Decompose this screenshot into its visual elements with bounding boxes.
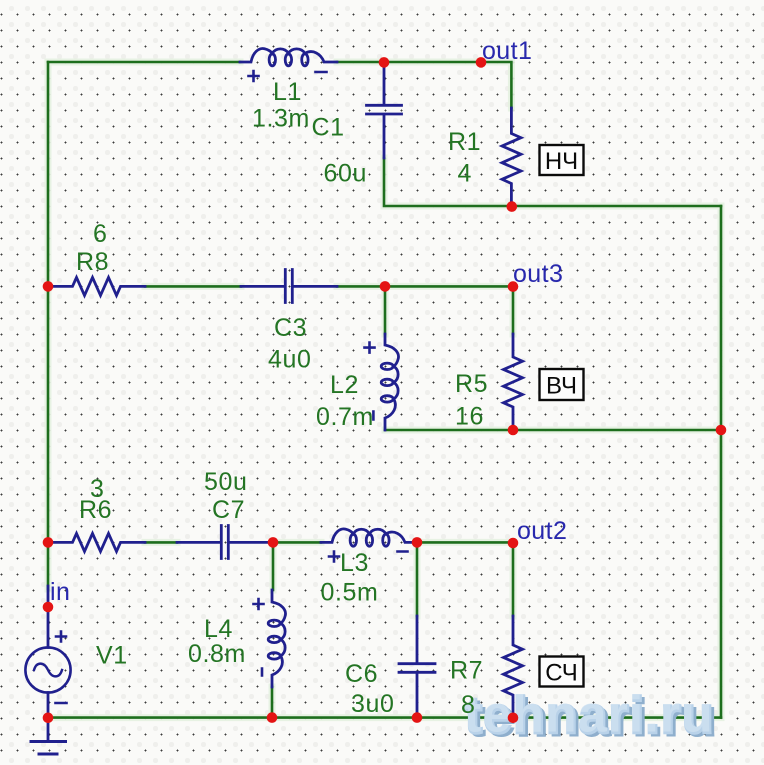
watermark tehnari.ru: [464, 686, 718, 748]
node out1: [476, 57, 487, 68]
svg-text:C1: C1: [312, 114, 345, 142]
svg-text:16: 16: [455, 403, 484, 431]
svg-text:R6: R6: [79, 496, 112, 524]
box NCh: [540, 145, 584, 175]
wire C3 to out3: [337, 285, 513, 288]
svg-text:out2: out2: [517, 517, 567, 545]
svg-text:0.8m: 0.8m: [188, 640, 246, 668]
svg-text:60u: 60u: [324, 160, 368, 188]
capacitor C3: [241, 270, 337, 303]
resistor R7: [504, 616, 523, 718]
wire right rail vertical: [720, 206, 723, 718]
svg-text:L3: L3: [340, 549, 369, 577]
node out3: [508, 281, 519, 292]
node out2: [508, 538, 519, 549]
capacitor C6: [399, 616, 435, 717]
svg-text:out3: out3: [513, 260, 563, 288]
ground: [31, 718, 66, 754]
svg-text:0.5m: 0.5m: [321, 579, 379, 607]
wire left rail vertical: [47, 62, 50, 589]
node C1 top junction: [379, 57, 390, 68]
box VCh: [540, 369, 584, 400]
wire L4 bottom green lead: [271, 687, 274, 718]
node L4 bottom junction: [267, 712, 278, 723]
wire junction down to L2: [384, 286, 387, 334]
svg-text:4: 4: [458, 160, 473, 188]
svg-text:6: 6: [93, 220, 108, 248]
wire L3 junction down to C6: [416, 542, 419, 616]
box SCh: [540, 657, 584, 687]
wire C1 bottom to R1 bottom rail y=206: [384, 158, 721, 206]
wire bottom rail y=717.6: [48, 716, 721, 719]
resistor R1: [502, 108, 521, 207]
svg-text:3u0: 3u0: [351, 690, 395, 718]
svg-text:C3: C3: [274, 314, 307, 342]
svg-text:out1: out1: [482, 37, 532, 65]
svg-text:C6: C6: [345, 660, 378, 688]
node C7 right junction: [268, 537, 279, 548]
wire out3 down to R5: [512, 286, 515, 334]
node C6 bottom junction: [412, 712, 423, 723]
wire C7 junction down to L4: [272, 542, 275, 590]
svg-text:0.7m: 0.7m: [316, 403, 374, 431]
wire top-left horizontal: [48, 61, 240, 64]
capacitor C1: [367, 62, 402, 158]
svg-text:СЧ: СЧ: [545, 660, 578, 687]
resistor R6: [49, 533, 145, 551]
node right rail mid junction: [716, 425, 727, 436]
svg-text:8: 8: [461, 691, 476, 719]
node left rail R6 junction: [43, 537, 54, 548]
node C3 right junction: [380, 281, 391, 292]
wire R6 to C7: [145, 541, 177, 544]
inductor L1: [240, 49, 337, 81]
wire glow underlay: [48, 62, 721, 718]
svg-text:50u: 50u: [204, 468, 248, 496]
svg-text:R7: R7: [450, 657, 483, 685]
svg-text:ВЧ: ВЧ: [546, 373, 577, 400]
node in: [43, 602, 54, 613]
inductor L3: [321, 529, 417, 562]
inductor L2: [365, 334, 399, 430]
node R1 bottom junction: [507, 201, 518, 212]
svg-text:R1: R1: [448, 128, 481, 156]
svg-text:4u0: 4u0: [268, 346, 312, 374]
wire R8 to C3: [145, 285, 241, 288]
svg-text:V1: V1: [96, 642, 128, 670]
svg-text:R5: R5: [455, 370, 488, 398]
wire L1 to out1 corner and down to R1: [337, 62, 511, 108]
inductor L4: [254, 590, 286, 687]
node L3 right junction: [412, 537, 423, 548]
svg-text:tehnari.ru: tehnari.ru: [464, 686, 714, 744]
svg-text:in: in: [50, 578, 70, 606]
wire C7 to L3: [273, 541, 321, 544]
svg-text:R8: R8: [76, 248, 109, 276]
svg-text:НЧ: НЧ: [545, 148, 578, 175]
wire mid bottom rail y=430: [385, 429, 721, 432]
voltage source V1: [25, 586, 70, 718]
svg-text:L1: L1: [273, 78, 302, 106]
wire out2 down to R7: [512, 542, 515, 616]
resistor R8: [49, 277, 145, 295]
svg-text:L2: L2: [330, 371, 359, 399]
node V1 bottom junction: [43, 713, 54, 724]
node left rail R8 junction: [43, 281, 54, 292]
svg-text:L4: L4: [204, 615, 233, 643]
capacitor C7: [177, 526, 273, 559]
svg-text:C7: C7: [212, 496, 245, 524]
node R7 bottom junction: [508, 713, 519, 724]
resistor R5: [504, 334, 523, 430]
node R5 bottom junction: [508, 425, 519, 436]
svg-text:1.3m: 1.3m: [252, 105, 310, 133]
wire L3 to out2: [417, 541, 513, 544]
